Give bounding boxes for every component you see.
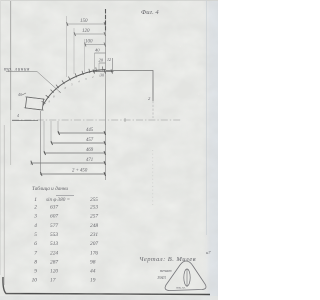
stamp triangle: [165, 261, 206, 291]
ext line 150: [66, 16, 68, 77]
main vertical line: [105, 9, 107, 31]
dim rows: [58, 132, 106, 134]
centerline dash-dot: [12, 119, 181, 121]
arc: [43, 70, 106, 106]
arc ticks: [102, 67, 104, 71]
dim 120: [74, 33, 106, 35]
page edge faint lines: [10, 0, 12, 110]
flange rectangle (tilted): [24, 97, 45, 110]
paper background: [0, 0, 218, 300]
square top edge: [106, 71, 153, 102]
dim 20 nested: [99, 62, 106, 64]
arc point numerals: [49, 74, 102, 104]
bottom border line: [3, 277, 210, 295]
mini dim right, label 12: [112, 58, 114, 72]
bottom dims: [57, 121, 59, 133]
dim 40 nested: [95, 52, 106, 54]
bottom mini dim with arrows: [93, 71, 114, 73]
faint right inner line: [206, 0, 208, 235]
dim 100: [85, 44, 106, 46]
dim 150: [67, 23, 106, 25]
